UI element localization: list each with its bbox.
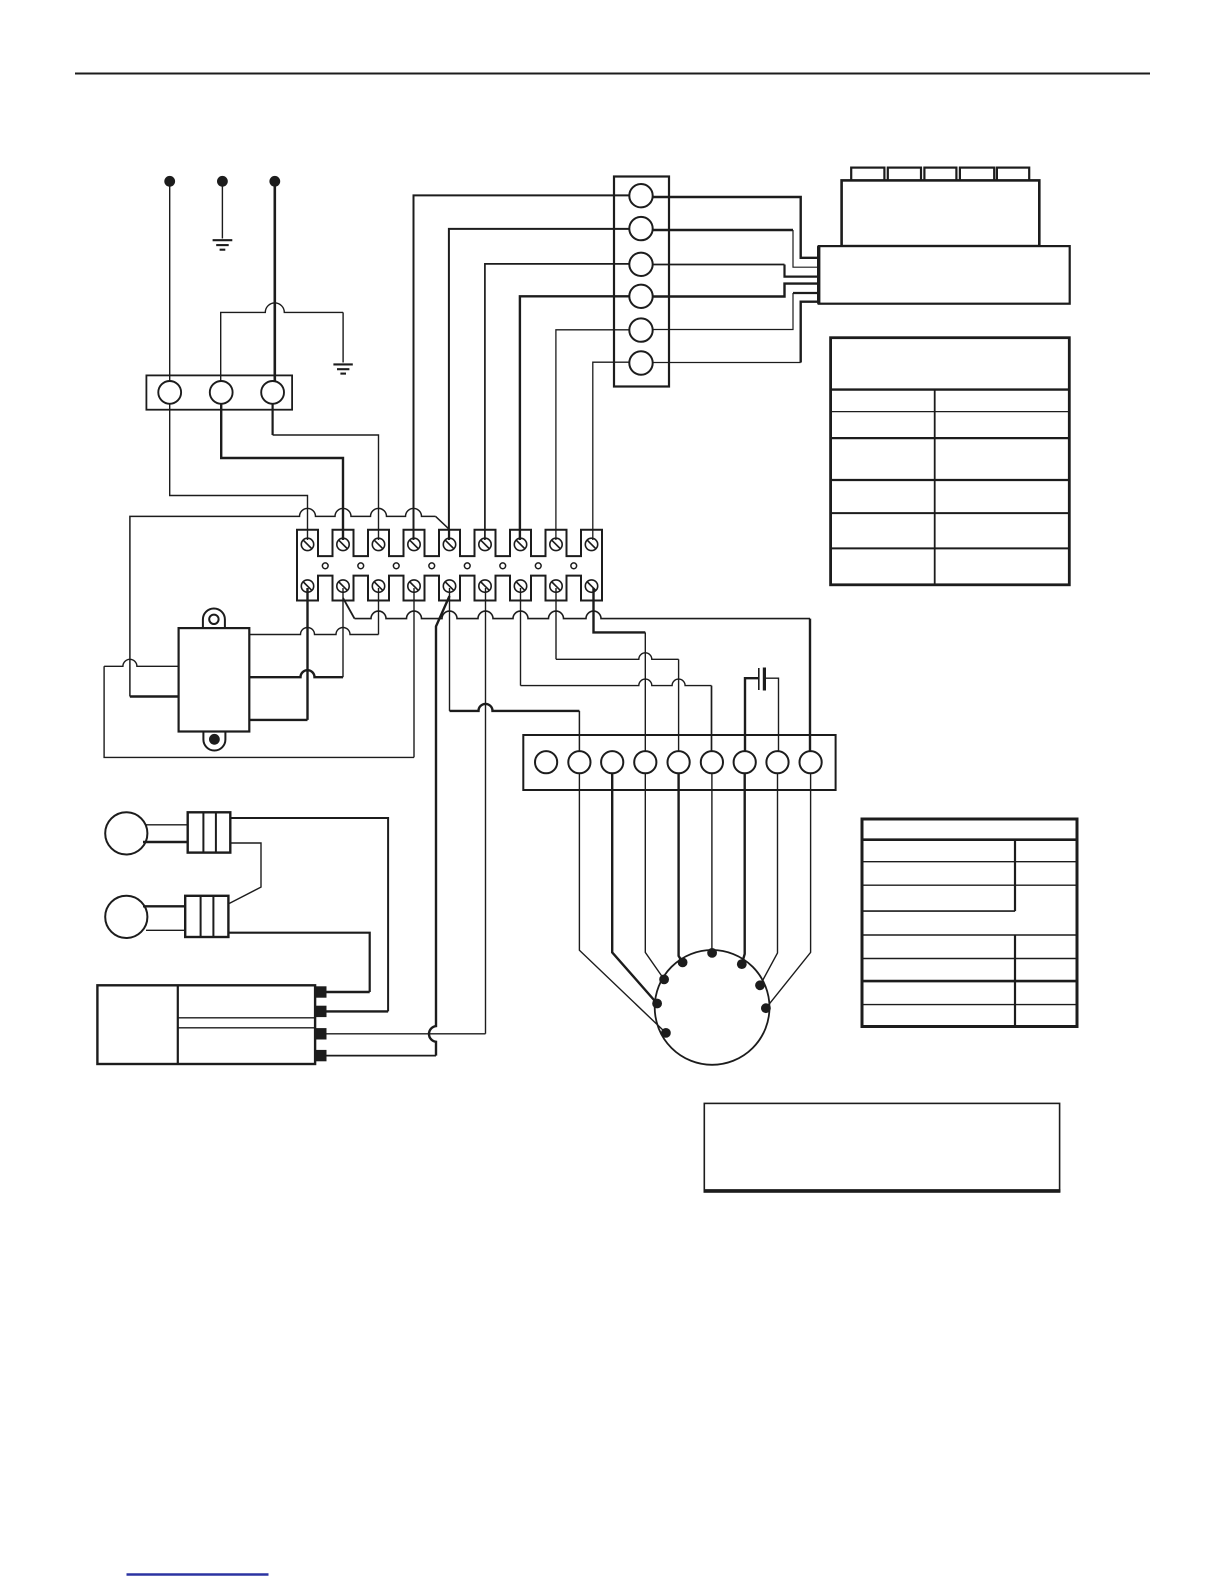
- terminal strip TB2: [297, 530, 602, 601]
- wire: [221, 303, 343, 382]
- wire: [429, 596, 450, 1056]
- wire: [555, 588, 557, 659]
- wire: [485, 264, 630, 540]
- wire: [229, 843, 261, 903]
- supply lead dot 3: [269, 176, 280, 187]
- wire: [221, 184, 223, 239]
- wire: [520, 588, 522, 686]
- wire: [413, 588, 415, 757]
- wire: [221, 404, 343, 540]
- wire: [645, 773, 664, 979]
- wire: [414, 195, 631, 540]
- wire: [653, 229, 793, 231]
- wire: [327, 1055, 437, 1057]
- lamp LP1: [105, 812, 230, 854]
- wire: [521, 679, 712, 751]
- wire: [593, 362, 630, 540]
- ground GND2: [333, 364, 352, 373]
- capacitor C1: [745, 668, 779, 752]
- wire: [327, 1033, 486, 1035]
- wire: [679, 773, 683, 962]
- wire: [273, 184, 276, 382]
- connector CN2: [523, 735, 835, 790]
- wire: [653, 284, 819, 297]
- wire: [449, 229, 630, 540]
- wire: [485, 588, 487, 1034]
- wire: [653, 293, 793, 330]
- connector CN1: [614, 177, 669, 387]
- wire: [449, 588, 451, 711]
- wire: [785, 265, 819, 277]
- wire: [711, 773, 713, 953]
- table (motor speed legend): [862, 819, 1077, 1027]
- wire: [273, 435, 379, 540]
- wire: [342, 588, 344, 677]
- wire: [644, 632, 646, 751]
- wire: [556, 653, 679, 752]
- wire: [249, 628, 378, 635]
- wire: [104, 666, 414, 757]
- control unit U1: [819, 168, 1070, 304]
- link underline: [127, 1573, 269, 1575]
- wire: [653, 264, 785, 266]
- wire: [793, 230, 819, 267]
- wire: [742, 773, 745, 964]
- wire: [228, 933, 369, 992]
- wire: [801, 302, 819, 363]
- wire: [612, 773, 657, 1003]
- wire: [249, 670, 343, 677]
- motor M1: [652, 948, 771, 1065]
- wire: [556, 330, 630, 540]
- wire: [272, 404, 274, 435]
- wire: [104, 659, 179, 666]
- wire: [306, 588, 308, 720]
- wire: [327, 991, 370, 993]
- supply lead dot 1: [164, 176, 175, 187]
- wire: [249, 719, 307, 721]
- note box: [704, 1103, 1061, 1192]
- wire: [520, 296, 630, 540]
- wire: [230, 818, 388, 1011]
- wire: [342, 312, 344, 362]
- horizontal rule (page header): [75, 73, 1150, 75]
- wire: [766, 773, 811, 1008]
- wire: [378, 588, 380, 635]
- ignition unit U2: [97, 985, 315, 1064]
- terminal block TB1: [146, 375, 292, 409]
- transformer T1: [179, 609, 250, 751]
- wire: [594, 588, 646, 632]
- supply lead dot 2: [217, 176, 228, 187]
- wire: [760, 773, 778, 985]
- pins U2: [315, 986, 326, 1061]
- wire: [327, 1010, 389, 1012]
- wire: [355, 611, 811, 618]
- wire: [579, 773, 666, 1033]
- ground GND1: [213, 240, 233, 250]
- wire: [450, 704, 580, 751]
- wire: [793, 292, 819, 294]
- wire: [130, 695, 179, 697]
- wire: [653, 197, 819, 258]
- wire: [653, 362, 801, 364]
- table (wiring legend): [831, 338, 1070, 585]
- wire: [169, 184, 171, 382]
- wire: [170, 404, 308, 540]
- wire: [809, 619, 811, 752]
- wire: [343, 598, 355, 619]
- wire: [130, 508, 450, 696]
- lamp LP2: [105, 896, 228, 938]
